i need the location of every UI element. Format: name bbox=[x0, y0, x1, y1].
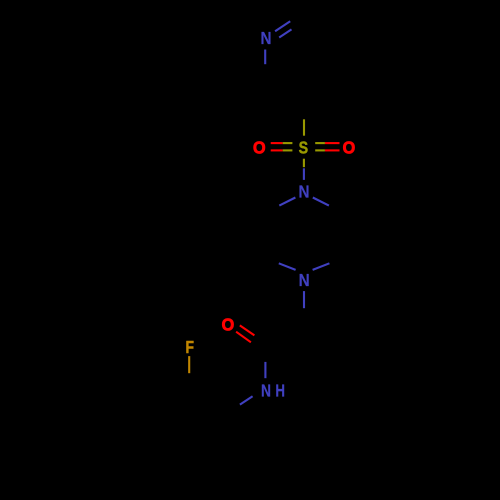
sulfonyl and carbonyl red halves bbox=[236, 143, 339, 342]
wire S-N2 nitrogen half bbox=[303, 168, 305, 180]
wire S-N2 sulfur half bbox=[303, 159, 305, 168]
fluorine bond half bbox=[188, 356, 190, 373]
wire left S=O lower red half bbox=[271, 149, 283, 151]
svg-text:O: O bbox=[253, 137, 266, 157]
wire left S=O lower yellow half bbox=[283, 149, 293, 151]
wire left S=O upper yellow half bbox=[283, 142, 293, 144]
wire amide C=O lower red half bbox=[236, 332, 251, 343]
wire right S=O upper yellow half bbox=[315, 142, 325, 144]
wire N1-C6 half bbox=[264, 50, 266, 65]
svg-text:N: N bbox=[299, 270, 310, 290]
sulfur yellow halves bbox=[283, 119, 325, 167]
wire F-C2' half bbox=[188, 356, 190, 373]
wire amide N-C(=O) half bbox=[264, 362, 266, 378]
svg-text:H: H bbox=[275, 381, 285, 401]
svg-text:N: N bbox=[299, 182, 310, 202]
wire amide C=O upper red half bbox=[240, 325, 255, 335]
svg-text:O: O bbox=[343, 137, 356, 157]
wire right S=O upper red half bbox=[325, 142, 340, 144]
wire N2-C(ur) half bbox=[313, 198, 329, 206]
svg-text:S: S bbox=[299, 138, 309, 158]
wire right S=O lower red half bbox=[325, 149, 340, 151]
wire N1=C2 inner line bbox=[279, 29, 291, 37]
svg-text:N: N bbox=[261, 381, 271, 401]
wire left S=O upper red half bbox=[271, 142, 283, 144]
wire N3-CH2 half bbox=[303, 291, 305, 308]
wire N1=C2 outer line bbox=[275, 21, 290, 31]
wire N3-C(ll) half bbox=[279, 263, 296, 270]
wire right S=O lower yellow half bbox=[315, 149, 325, 151]
wire N3-C(lr) half bbox=[313, 263, 330, 270]
svg-text:O: O bbox=[222, 314, 235, 334]
pyridine ring N1=C2 double bond (blue halves) bbox=[240, 21, 330, 404]
wire C5(pyridine)-S half bbox=[303, 119, 305, 135]
svg-text:F: F bbox=[185, 337, 194, 357]
wire N2-C(ul) half bbox=[279, 198, 295, 206]
wire amide N-C1' half bbox=[240, 396, 253, 404]
svg-text:N: N bbox=[261, 28, 272, 48]
